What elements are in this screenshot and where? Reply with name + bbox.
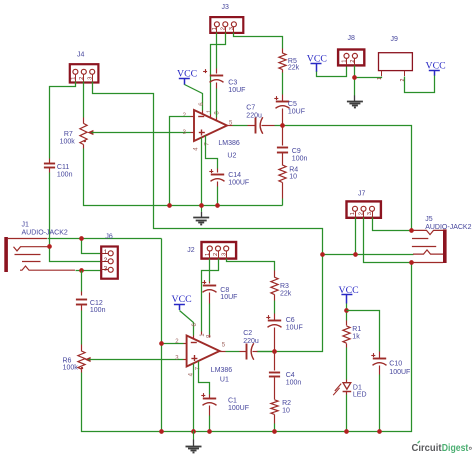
- svg-text:10UF: 10UF: [228, 87, 245, 94]
- capacitor C5: [274, 96, 289, 108]
- svg-text:100UF: 100UF: [228, 405, 249, 412]
- wire C6 top lead: [274, 314, 276, 321]
- wire U2 pin7 to C14: [206, 136, 218, 169]
- junction D1 / bottom rail: [344, 429, 349, 434]
- wire J4 pin3 down-right to C2/C4/C6 node: [93, 82, 323, 352]
- svg-text:D1: D1: [353, 384, 362, 391]
- svg-text:3: 3: [87, 77, 93, 80]
- svg-text:C1: C1: [228, 398, 237, 405]
- wire VCC to J8 pin1: [317, 66, 347, 77]
- svg-text:2: 2: [220, 27, 226, 30]
- wire J4 pin1 to C11: [50, 82, 76, 159]
- resistor R1: [343, 326, 350, 343]
- svg-text:Cırcuit: Cırcuit: [412, 443, 443, 454]
- wire C11 top lead: [49, 159, 51, 164]
- wire R1 bottom lead: [346, 344, 348, 348]
- wire C9 bottom lead: [282, 153, 284, 166]
- wire J8 pin2 to J9 pin1: [355, 77, 382, 78]
- wire C3 bottom lead: [216, 83, 218, 89]
- svg-text:R3: R3: [280, 283, 289, 290]
- wire J8 pin2 down to ground: [354, 66, 356, 96]
- svg-text:C2: C2: [243, 330, 252, 337]
- connector J6: [101, 234, 118, 279]
- junction U2 pin4 / ground: [199, 203, 204, 208]
- wire C3 to U2 pin8: [216, 89, 218, 118]
- wire J3 pin2 to U2 pin1: [211, 33, 226, 115]
- svg-text:Digest: Digest: [442, 443, 469, 454]
- junction J8 pin2 / J9 / ground: [352, 75, 357, 80]
- junction J5 tip node: [409, 228, 414, 233]
- wire U1 pin6 stub: [193, 336, 195, 340]
- svg-text:C14: C14: [228, 172, 241, 179]
- wire U1 pin3 stub: [184, 359, 187, 361]
- wire J2 pin3 to R3: [227, 259, 275, 271]
- resistor R2: [271, 400, 278, 415]
- connector J3: [210, 4, 243, 33]
- svg-text:J8: J8: [348, 35, 356, 42]
- wire U2 pin2 stub: [191, 116, 195, 118]
- wire C10 bottom lead: [379, 366, 381, 375]
- wire VCC to U2 pin6: [185, 85, 203, 111]
- wire R1 to D1: [346, 348, 348, 380]
- connector J7: [347, 191, 381, 218]
- junction sleeve rail / J6 pin1: [79, 236, 84, 241]
- svg-text:C4: C4: [286, 372, 295, 379]
- wire VCC node to C10: [347, 311, 380, 352]
- svg-text:C8: C8: [220, 287, 229, 294]
- junction VCC node: [344, 308, 349, 313]
- wire R3 to C6: [274, 301, 276, 314]
- wire C2 to node: [258, 351, 275, 353]
- wire C3 top lead: [216, 69, 218, 74]
- junction J5 sleeve node: [409, 260, 414, 265]
- wire U2 pin8 stub: [216, 118, 218, 122]
- ground symbol (U1): [186, 431, 202, 453]
- junction U1 pin2 tap: [159, 341, 164, 346]
- svg-text:10: 10: [282, 407, 290, 414]
- svg-text:1: 1: [350, 212, 356, 215]
- wire C5 bottom lead: [282, 109, 284, 126]
- svg-text:100UF: 100UF: [228, 179, 249, 186]
- junction output node C7/C5/C9: [280, 123, 285, 128]
- wire R1 top lead: [346, 321, 348, 326]
- wire VCC to U1 pin6: [180, 311, 194, 336]
- wire D1 anode lead: [346, 380, 348, 383]
- wire C11 bottom lead: [49, 168, 51, 173]
- svg-text:100n: 100n: [292, 155, 308, 162]
- wire mid ground rail: [84, 149, 283, 206]
- wire to C12: [81, 271, 83, 292]
- svg-text:1: 1: [377, 77, 383, 80]
- svg-text:2: 2: [104, 257, 108, 264]
- wire C7 left lead: [248, 125, 256, 127]
- wire J2 pin1 to C8: [209, 259, 211, 282]
- wire C12 bottom lead: [81, 305, 83, 311]
- wire U1 output to C2: [226, 351, 240, 353]
- svg-text:AUDIO-JACK2: AUDIO-JACK2: [425, 224, 471, 231]
- svg-text:J3: J3: [222, 4, 230, 11]
- audio jack J5 (AUDIO-JACK2): [411, 216, 471, 263]
- wire C2 right lead: [253, 351, 258, 353]
- wire J4 pin2 to R7 top: [83, 82, 85, 118]
- svg-text:100n: 100n: [90, 307, 106, 314]
- wire R7 top lead: [83, 118, 85, 124]
- wire C5 top lead: [282, 95, 284, 102]
- wire C8 top lead: [209, 282, 211, 284]
- power VCC symbol (J8): [307, 54, 327, 72]
- wire U2 pin5 stub: [228, 125, 233, 127]
- potentiometer R7 wiper arrow: [87, 130, 93, 135]
- wire U1 pin2 stub: [184, 343, 187, 345]
- wire R6 top lead: [81, 345, 83, 352]
- wire U1 pin1 stub: [201, 332, 203, 335]
- wire J7 pin3 to J5 tip: [373, 218, 412, 231]
- svg-text:C10: C10: [389, 360, 402, 367]
- wire C14 top lead: [217, 169, 219, 173]
- capacitor C14: [209, 169, 224, 181]
- junction C14 / mid rail: [215, 203, 220, 208]
- wire U2 pin3 stub: [191, 132, 195, 134]
- svg-text:LM386: LM386: [211, 367, 233, 374]
- wire U2 pin4 to mid rail: [201, 138, 203, 206]
- power VCC symbol (LED/C10): [339, 285, 359, 304]
- svg-text:C12: C12: [90, 300, 103, 307]
- wire branch to J6 pin1: [82, 239, 102, 254]
- svg-text:1: 1: [342, 60, 348, 63]
- wire U2 pin6 stub: [202, 111, 204, 115]
- wire R7 wiper to U2 pin3: [92, 132, 191, 134]
- svg-text:C3: C3: [228, 80, 237, 87]
- wire U2 output to C7: [233, 125, 248, 127]
- junction J1 tip / C11 line: [47, 244, 52, 249]
- resistor R5: [279, 53, 286, 70]
- op-amp U2 (LM386): [194, 110, 227, 141]
- wire C1 to rail: [209, 416, 211, 432]
- svg-text:J6: J6: [105, 234, 113, 241]
- wire to U1 pin2: [162, 343, 184, 345]
- svg-text:J7: J7: [358, 191, 366, 198]
- svg-text:J4: J4: [77, 51, 85, 58]
- wire R6 bottom lead: [81, 370, 83, 373]
- svg-text:220u: 220u: [243, 338, 259, 345]
- junction rail / J6 wire: [159, 429, 164, 434]
- wire C14 to mid rail: [217, 187, 219, 206]
- wire VCC to R1: [346, 304, 348, 321]
- wire C4 top lead: [274, 352, 276, 371]
- wire R7 bottom lead: [83, 145, 85, 149]
- wire C8 bottom lead: [209, 293, 211, 304]
- svg-text:R2: R2: [282, 400, 291, 407]
- wire U1 pin4 to rail: [193, 364, 195, 432]
- svg-text:2: 2: [359, 212, 365, 215]
- svg-text:100UF: 100UF: [389, 369, 410, 376]
- svg-text:U2: U2: [227, 152, 236, 159]
- wire C1 top lead: [209, 395, 211, 399]
- junction J1 ring / C12 / J6 pin3: [79, 268, 84, 273]
- svg-text:J1: J1: [22, 222, 30, 229]
- wire R4 to mid rail: [282, 199, 284, 206]
- wire to J6 pin3: [82, 270, 102, 272]
- connector J8: [338, 35, 364, 65]
- svg-text:VCC: VCC: [426, 60, 446, 71]
- svg-text:1: 1: [205, 253, 211, 256]
- svg-text:R4: R4: [289, 166, 298, 173]
- wire U2 pin2 to mid rail: [170, 117, 191, 206]
- connector J2: [187, 242, 236, 259]
- svg-text:C6: C6: [286, 317, 295, 324]
- wire U2 pin1 stub: [210, 115, 212, 119]
- svg-text:C7: C7: [246, 105, 255, 112]
- wire U1 pin8 stub: [209, 335, 211, 338]
- capacitor C11: [44, 164, 55, 168]
- wire C2 left lead: [240, 351, 247, 353]
- wire U2 output node to J5 tip: [283, 126, 412, 231]
- svg-text:2: 2: [350, 60, 356, 63]
- junction R2 / bottom rail: [272, 429, 277, 434]
- wire J1 sleeve to J6 pin1 rail: [48, 238, 162, 240]
- resistor R6: [78, 351, 85, 369]
- wire R5 top lead: [282, 49, 284, 54]
- wire C4 bottom lead: [274, 378, 276, 400]
- junction J7 pin1: [353, 252, 358, 257]
- svg-text:3: 3: [229, 27, 235, 30]
- audio jack J1 (AUDIO-JACK2): [4, 222, 75, 273]
- wire U1 pin5 stub: [220, 351, 226, 353]
- wire C9 top lead: [282, 126, 284, 146]
- wire R3 bottom lead: [274, 295, 276, 301]
- wire R3 top lead: [274, 271, 276, 278]
- svg-text:2: 2: [213, 253, 219, 256]
- wire J7 pin2 to J5 sleeve: [364, 218, 412, 263]
- wire D1 cathode lead: [346, 392, 348, 395]
- svg-text:100n: 100n: [57, 171, 73, 178]
- svg-text:22k: 22k: [280, 291, 292, 298]
- power VCC symbol (U1 supply): [172, 294, 192, 310]
- wire J3 pin3 to R5: [234, 33, 283, 49]
- capacitor C12: [76, 300, 87, 305]
- wire C14 bottom lead: [217, 182, 219, 187]
- wire C12 top lead: [81, 292, 83, 296]
- svg-text:220u: 220u: [246, 112, 262, 119]
- wire J9 pin2 to VCC: [405, 76, 435, 93]
- junction C2/C4/C6 node: [272, 349, 277, 354]
- svg-text:10UF: 10UF: [288, 109, 305, 116]
- wire R5 bottom lead: [282, 70, 284, 73]
- junction long input wire: [320, 252, 325, 257]
- capacitor C1: [201, 393, 216, 405]
- svg-text:J5: J5: [425, 216, 433, 223]
- wire C10 to rail: [379, 375, 381, 432]
- ground symbol (J8): [347, 95, 363, 107]
- svg-text:AUDIO-JACK2: AUDIO-JACK2: [22, 230, 68, 237]
- svg-text:22k: 22k: [288, 65, 300, 72]
- wire J2 pin2 to U1 pin1: [202, 259, 219, 332]
- power VCC symbol (J9): [426, 60, 446, 75]
- wire J3 pin1 to C3: [216, 33, 218, 69]
- potentiometer R6 wiper arrow: [85, 357, 91, 362]
- ground symbol (U2): [193, 206, 209, 225]
- wire bottom ground rail: [82, 263, 412, 432]
- capacitor C10: [371, 353, 386, 365]
- svg-text:1: 1: [212, 27, 218, 30]
- svg-text:J2: J2: [187, 247, 195, 254]
- resistor R7: [80, 123, 87, 144]
- svg-text:R1: R1: [352, 326, 361, 333]
- svg-text:100k: 100k: [60, 138, 76, 145]
- wire J7 pin1 down: [355, 218, 357, 255]
- svg-text:10UF: 10UF: [286, 324, 303, 331]
- junction U1 pin4 / ground: [191, 429, 196, 434]
- svg-text:C9: C9: [292, 148, 301, 155]
- svg-text:10UF: 10UF: [220, 294, 237, 301]
- svg-text:1k: 1k: [352, 333, 360, 340]
- wire C6 bottom lead: [274, 328, 276, 352]
- svg-text:100n: 100n: [286, 379, 302, 386]
- resistor R3: [271, 277, 278, 294]
- svg-text:10: 10: [289, 174, 297, 181]
- pin labels U2: [183, 102, 233, 151]
- LED D1: [333, 383, 366, 399]
- pin labels U1: [175, 323, 226, 377]
- svg-text:LM386: LM386: [218, 140, 240, 147]
- capacitor C4: [269, 373, 280, 377]
- wire J6 pin1 rail down to bottom rail: [161, 239, 163, 432]
- power VCC symbol (U2 supply): [177, 68, 197, 84]
- junction C10 / bottom rail: [377, 429, 382, 434]
- capacitor C8: [202, 280, 216, 292]
- wire C8 to U1 pin8: [209, 304, 211, 335]
- CircuitDigest logo: [412, 441, 472, 454]
- wire C11 to J1 tip / J6 pin2: [50, 173, 102, 262]
- capacitor C6: [266, 315, 281, 327]
- junction U2 pin2 / mid rail: [167, 203, 172, 208]
- svg-text:100k: 100k: [63, 364, 79, 371]
- svg-text:1: 1: [71, 77, 77, 80]
- svg-text:VCC: VCC: [172, 294, 192, 305]
- wire R4 bottom lead: [282, 183, 284, 199]
- wire C10 top lead: [379, 352, 381, 359]
- wire D1 to rail: [346, 395, 348, 432]
- connector J9: [377, 36, 412, 82]
- wire R5 to C5: [282, 73, 284, 95]
- wire R2 to rail: [274, 424, 276, 432]
- capacitor C3: [203, 69, 223, 82]
- wire R2 bottom lead: [274, 415, 276, 424]
- svg-text:C5: C5: [288, 101, 297, 108]
- svg-text:R7: R7: [64, 131, 73, 138]
- svg-text:U1: U1: [220, 377, 229, 384]
- svg-text:3: 3: [104, 265, 108, 272]
- wire C7 right lead: [262, 125, 275, 127]
- wire U1 pin7 to C1: [199, 362, 210, 395]
- wire J1 ring contact to C12: [76, 270, 82, 272]
- svg-text:2: 2: [79, 77, 85, 80]
- svg-text:C11: C11: [57, 164, 69, 171]
- capacitor C9: [277, 148, 288, 153]
- wire C12 to R6: [81, 311, 83, 345]
- capacitor C2: [247, 343, 254, 359]
- svg-text:3: 3: [367, 212, 373, 215]
- connector J4: [70, 51, 99, 82]
- svg-text:3: 3: [221, 253, 227, 256]
- op-amp U1 (LM386): [187, 336, 220, 367]
- capacitor C7: [256, 117, 263, 133]
- wire C7 to output node: [275, 125, 283, 127]
- junction C1 / bottom rail: [207, 429, 212, 434]
- svg-text:LED: LED: [353, 392, 367, 399]
- resistor R4: [279, 165, 286, 182]
- svg-text:J9: J9: [391, 36, 399, 43]
- svg-text:1: 1: [104, 249, 108, 256]
- wire input node to J5 ring switch: [323, 254, 414, 256]
- wire C1 bottom lead: [209, 406, 211, 416]
- wire R6 wiper to U1 pin3: [89, 359, 184, 361]
